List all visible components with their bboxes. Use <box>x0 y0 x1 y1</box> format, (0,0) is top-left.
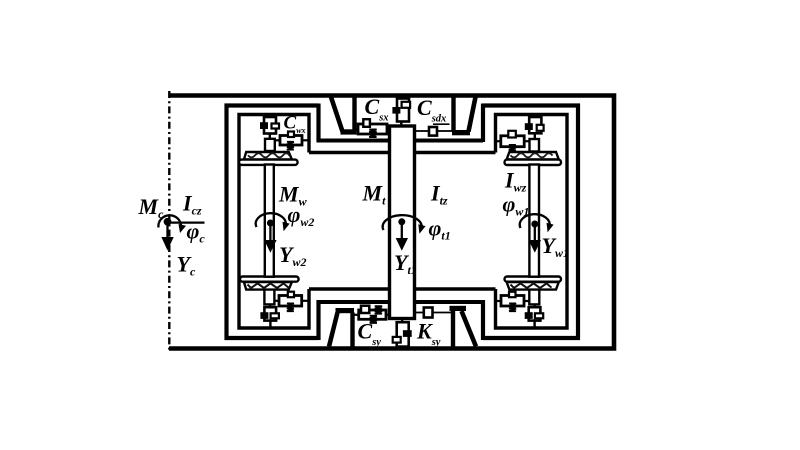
primary vertical damper, wheelset 2 top <box>260 114 279 140</box>
displacement arrow Y_t1 <box>396 224 408 251</box>
wheel, wheelset 1 top <box>505 152 562 165</box>
mass dot, wheelset 1 <box>531 221 538 228</box>
frame top cross member upper edge <box>317 139 484 143</box>
wheel, wheelset 2 top <box>239 152 298 165</box>
secondary longitudinal damper C_sdx <box>415 127 453 136</box>
axle journal top, wheelset 2 <box>265 139 275 151</box>
bogie frame central beam (M_t bar) <box>390 126 415 319</box>
frame top cross member lower edge <box>309 151 496 155</box>
primary vertical damper, wheelset 1 bottom <box>525 304 544 327</box>
axle, wheelset 2 <box>265 165 274 277</box>
wheel, wheelset 2 bottom <box>240 277 299 290</box>
car body bolster funnel, bottom left <box>329 308 354 347</box>
displacement arrow Y_w1 <box>529 226 541 253</box>
car body bolster funnel, bottom right <box>450 306 477 347</box>
axle journal bottom, wheelset 1 <box>529 289 539 304</box>
rotation arc phi_w2, wheelset 2 <box>256 213 290 231</box>
primary lateral spring-damper, wheelset 1 bottom <box>496 292 530 312</box>
mass dot, car body <box>164 218 172 226</box>
frame top notch step, right <box>481 104 485 143</box>
bogie frame outer contour, right section <box>483 106 578 339</box>
secondary longitudinal spring-damper C_sx <box>355 119 391 137</box>
primary vertical damper, wheelset 2 bottom <box>260 304 279 327</box>
mass dot, wheelset 2 <box>267 220 274 227</box>
car body bolster funnel, top right <box>452 96 476 135</box>
axle journal bottom, wheelset 2 <box>264 289 274 304</box>
secondary damper, bottom center <box>393 318 412 347</box>
right wheelset opening in frame <box>496 115 568 329</box>
displacement arrow Y_c <box>161 224 173 251</box>
lateral axis line at car body dot <box>168 222 205 224</box>
rotation arc phi_c, car body <box>158 215 186 233</box>
bogie frame outer contour, left section <box>227 106 319 339</box>
primary lateral spring-damper, wheelset 1 top <box>496 131 530 153</box>
frame bottom cross member upper edge <box>309 287 496 291</box>
axle, wheelset 1 <box>529 165 539 277</box>
frame bottom cross member lower edge <box>317 300 484 304</box>
secondary yaw damper, top center <box>392 96 410 127</box>
rotation arc phi_w1, wheelset 1 <box>520 214 554 232</box>
wheel, wheelset 1 bottom <box>505 277 562 290</box>
primary lateral spring-damper C_wx, wheelset 2 top <box>275 132 308 150</box>
left wheelset opening in frame <box>239 115 309 329</box>
mass dot, bogie frame <box>398 218 405 225</box>
frame bottom notch step, left <box>316 300 320 340</box>
frame bottom notch step, right <box>481 300 485 340</box>
car body symmetry cut: dash-dot left edge <box>168 91 170 350</box>
primary lateral spring-damper, wheelset 2 bottom <box>274 292 307 312</box>
underline below sdx subscript <box>433 123 450 125</box>
secondary lateral damper K_sy <box>415 308 453 318</box>
car body outline (top, right, bottom edges) <box>169 96 614 349</box>
rotation arc phi_t1, bogie frame <box>383 215 426 234</box>
displacement arrow Y_w2 <box>264 225 276 253</box>
secondary lateral spring-damper C_sy <box>354 306 391 323</box>
frame top notch step, left <box>316 104 320 143</box>
car body bolster funnel, top left <box>331 96 357 135</box>
axle journal top, wheelset 1 <box>530 139 540 152</box>
primary vertical damper, wheelset 1 top <box>525 114 544 140</box>
